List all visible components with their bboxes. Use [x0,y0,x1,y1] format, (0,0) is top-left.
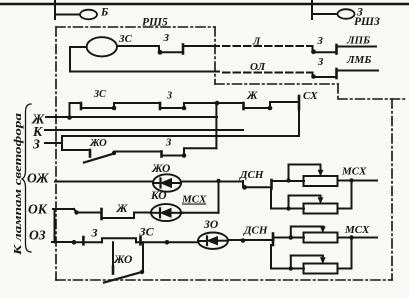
svg-text:З: З [163,32,170,44]
svg-text:ЗС: ЗС [139,225,155,239]
svg-text:ОЛ: ОЛ [250,61,266,73]
svg-text:МСХ: МСХ [344,224,370,236]
svg-text:ЖО: ЖО [113,254,132,266]
svg-text:ЛМБ: ЛМБ [346,54,371,66]
svg-text:З: З [317,57,324,68]
svg-text:Л: Л [252,37,261,48]
svg-text:Ж: Ж [246,90,258,102]
svg-text:СХ: СХ [303,90,318,102]
svg-text:ЖО: ЖО [89,138,107,149]
svg-text:РШ5: РШ5 [142,17,168,29]
svg-text:ОК: ОК [28,202,48,217]
svg-text:ДСН: ДСН [239,169,264,181]
svg-text:ЗС: ЗС [118,33,133,45]
svg-text:ОЖ: ОЖ [27,171,49,186]
svg-text:ОЗ: ОЗ [29,228,46,243]
svg-text:З: З [32,137,40,152]
svg-text:З: З [91,226,98,240]
svg-text:Ж: Ж [116,201,129,215]
svg-text:ЗО: ЗО [203,219,218,231]
svg-text:З: З [166,91,172,102]
svg-text:З: З [317,36,324,47]
svg-text:К лампам светофора: К лампам светофора [12,112,24,256]
svg-text:ЖО: ЖО [151,163,170,175]
svg-text:Б: Б [100,7,108,19]
svg-text:КО: КО [150,190,167,202]
svg-text:ЛПБ: ЛПБ [346,35,370,47]
svg-text:МСХ: МСХ [341,166,367,178]
svg-text:З: З [165,138,172,149]
svg-text:ЗС: ЗС [93,89,106,100]
svg-text:РШЗ: РШЗ [354,16,380,28]
svg-text:ДСН: ДСН [243,225,268,237]
svg-text:МСХ: МСХ [181,194,207,206]
